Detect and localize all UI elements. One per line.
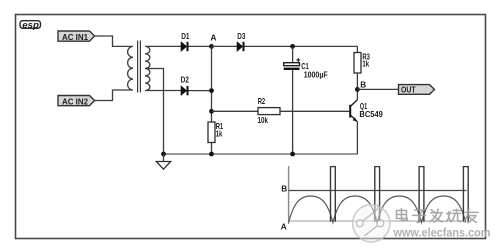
transformer T1 primary winding <box>128 46 133 90</box>
resistor R2 <box>258 108 280 115</box>
svg-text:A: A <box>281 223 287 232</box>
svg-text:www.elecfans.com: www.elecfans.com <box>393 228 491 240</box>
svg-text:1000µF: 1000µF <box>304 70 328 79</box>
ground bus wire <box>164 153 358 155</box>
wire secondary top to D1 <box>150 45 181 47</box>
ground symbol <box>156 154 170 169</box>
node A junction dot <box>209 44 214 49</box>
junction dot ground bus at tap <box>161 152 166 157</box>
transistor Q1 <box>350 100 357 122</box>
waveform pulse 2 <box>375 166 380 222</box>
svg-text:BC549: BC549 <box>359 110 383 119</box>
waveform pulse 3 <box>419 166 424 222</box>
wire rail corner down to R3 <box>356 46 358 52</box>
waveform pulse 1 <box>331 166 336 222</box>
wire node A to D3 <box>212 45 238 47</box>
connector AC IN2 <box>58 96 95 107</box>
svg-text:A: A <box>211 34 217 43</box>
waveform pulse 4 <box>463 166 468 222</box>
svg-text:10k: 10k <box>258 116 269 125</box>
transformer T1 secondary winding <box>145 46 150 90</box>
wire AC IN2 to transformer primary bottom <box>95 90 129 101</box>
waveform rectified sine trace <box>289 196 466 223</box>
wire C1 bottom to ground bus <box>292 70 294 154</box>
junction dot at D2 row <box>209 88 214 93</box>
svg-text:1k: 1k <box>362 60 369 69</box>
junction dot C1 top on rail <box>290 44 295 49</box>
wire Q1 emitter down to ground bus <box>356 122 358 154</box>
svg-text:D3: D3 <box>237 32 246 41</box>
waveform B level line <box>289 190 467 192</box>
diode D3 <box>237 42 244 51</box>
logo ESP (top-left badge) <box>20 20 41 30</box>
wire D1 to node A <box>189 45 212 47</box>
svg-text:D2: D2 <box>181 76 190 85</box>
svg-text:D1: D1 <box>181 32 190 41</box>
node B junction dot <box>355 87 360 92</box>
watermark logo circle <box>353 205 390 242</box>
diode D2 <box>181 86 188 95</box>
wire AC IN1 to transformer primary top <box>95 36 129 46</box>
resistor R3 <box>354 53 361 74</box>
wire junction to R2 <box>212 110 259 112</box>
capacitor C1 <box>284 58 301 70</box>
wire R2 to Q1 base <box>280 110 350 112</box>
wire secondary bottom to D2 <box>150 90 181 92</box>
svg-text:B: B <box>360 81 366 90</box>
svg-text:OUT: OUT <box>401 85 416 94</box>
svg-text:R2: R2 <box>258 97 266 106</box>
svg-text:AC IN2: AC IN2 <box>62 98 88 107</box>
junction dot at R2 row <box>209 109 214 114</box>
waveform plot axis (vertical) <box>288 166 290 224</box>
wire D2 to junction <box>189 90 212 92</box>
svg-text:1k: 1k <box>216 129 223 138</box>
transformer T1 core <box>137 41 139 93</box>
resistor R1 <box>208 122 215 143</box>
wire rail to C1 top plate <box>292 46 294 62</box>
connector OUT <box>399 85 435 95</box>
waveform A baseline <box>289 220 467 222</box>
junction dot ground bus at C1 <box>290 152 295 157</box>
connector AC IN1 <box>58 31 95 42</box>
watermark text 电子发烧友 (drawn as vector strokes) <box>397 209 479 223</box>
junction dot ground bus at R1 <box>209 152 214 157</box>
svg-text:AC IN1: AC IN1 <box>62 33 88 42</box>
wire D3 to R3 top (positive rail) <box>245 45 358 47</box>
wire center tap to ground <box>146 69 164 155</box>
wire R3 bottom to node B <box>356 73 358 100</box>
svg-text:esp: esp <box>22 20 39 30</box>
diode D1 <box>181 42 188 51</box>
wire node A down to ground bus (through junctions) <box>211 46 213 122</box>
wire R1 bottom to ground bus <box>211 143 213 155</box>
svg-text:B: B <box>281 184 287 193</box>
wire node B to OUT <box>357 88 398 90</box>
